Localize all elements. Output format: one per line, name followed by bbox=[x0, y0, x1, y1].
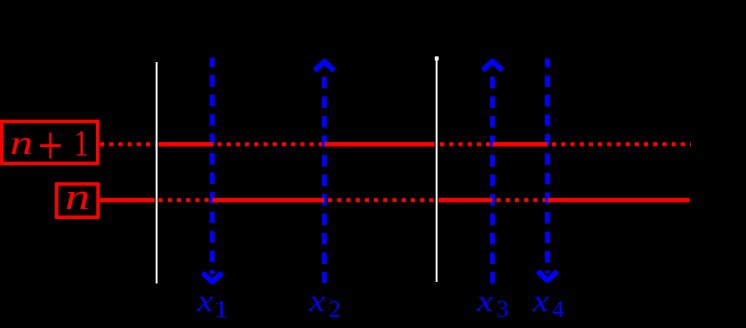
level line n+1 : solid segment x3 to x4 bbox=[493, 142, 548, 147]
svg-text:4: 4 bbox=[552, 297, 564, 323]
white line 2 top cap bbox=[435, 56, 439, 60]
svg-text:x: x bbox=[532, 283, 549, 318]
level line n+1 : solid segment white1 to x1 bbox=[159, 142, 214, 147]
svg-text:+: + bbox=[38, 115, 63, 176]
white vertical line 2 bbox=[436, 58, 438, 282]
level line n : dotted segment x2 to white2 bbox=[328, 198, 435, 202]
svg-text:x: x bbox=[476, 283, 493, 318]
level line n+1 : solid segment x2 to white2 bbox=[324, 142, 434, 147]
svg-text:2: 2 bbox=[329, 297, 341, 323]
level line n : dotted segment x3 to x4 bbox=[497, 198, 546, 202]
label box n bbox=[57, 184, 98, 217]
label x4 bbox=[532, 283, 564, 323]
arrowhead down x1 bbox=[203, 273, 223, 282]
dashed vertical line x2 bbox=[322, 77, 327, 283]
level line n+1 : dotted segment white2 to x3 bbox=[440, 142, 490, 146]
label x2 bbox=[308, 283, 341, 323]
dashed vertical line x1 bbox=[210, 58, 215, 274]
dashed vertical line x3 bbox=[490, 77, 495, 284]
arrowhead up x3 bbox=[483, 61, 503, 70]
svg-text:3: 3 bbox=[497, 297, 509, 323]
label box n+1 bbox=[2, 121, 98, 163]
label text n+1 bbox=[10, 115, 89, 176]
svg-text:n: n bbox=[65, 177, 90, 218]
level line n+1 : dotted segment box to white line 1 bbox=[100, 144, 691, 200]
dashed vertical line x4 bbox=[545, 59, 550, 274]
white vertical line 1 bbox=[156, 62, 158, 284]
level line n : solid segment white2 to x3 bbox=[439, 198, 493, 203]
level line n : dotted segment white1 to x1 bbox=[159, 198, 211, 202]
level line n+1 : dotted segment x4 to end bbox=[552, 142, 691, 146]
svg-text:1: 1 bbox=[74, 124, 89, 165]
level line n+1 : dotted segment x1 to x2 bbox=[218, 142, 323, 146]
svg-text:x: x bbox=[196, 283, 213, 318]
level line n : solid segment x4 to end bbox=[548, 198, 690, 203]
svg-text:x: x bbox=[308, 283, 325, 318]
level line n : solid segment box to white1 bbox=[100, 198, 155, 203]
svg-text:1: 1 bbox=[213, 297, 229, 323]
level line n : solid segment x1 to x2 bbox=[212, 198, 324, 203]
svg-text:n: n bbox=[10, 125, 33, 162]
arrowhead up x2 bbox=[315, 62, 335, 71]
arrowhead down x4 bbox=[538, 271, 558, 280]
label x3 bbox=[476, 283, 509, 323]
label x1 bbox=[196, 283, 229, 323]
